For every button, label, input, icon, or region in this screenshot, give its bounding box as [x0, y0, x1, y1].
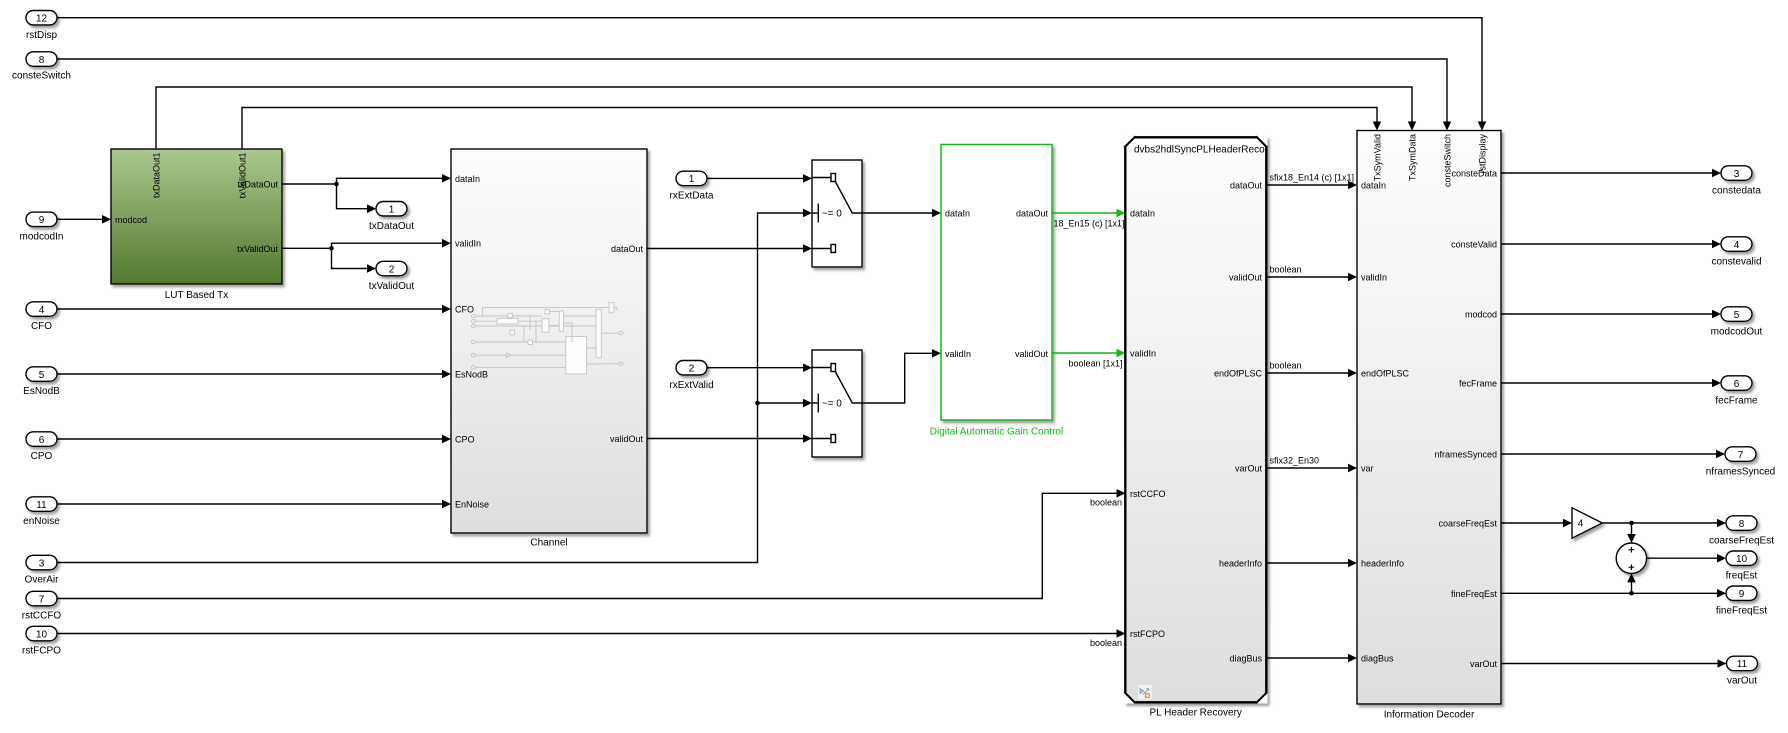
svg-text:consteValid: consteValid — [1451, 240, 1497, 250]
svg-text:11: 11 — [36, 500, 47, 511]
wire DAGC validOut to PL validIn (green) — [1052, 349, 1126, 369]
wire PL endOfPLSC to Info endOfPLSC — [1268, 361, 1358, 378]
svg-text:diagBus: diagBus — [1229, 654, 1262, 664]
svg-text:6: 6 — [39, 435, 45, 446]
svg-text:dataIn: dataIn — [455, 174, 480, 184]
wire Channel validOut to switch2 — [647, 434, 812, 443]
inport 10 rstFCPO — [22, 626, 61, 656]
outport 7 nframesSynced — [1706, 447, 1775, 478]
inport 11 enNoise — [23, 497, 60, 527]
svg-text:2: 2 — [389, 264, 395, 275]
svg-text:constevalid: constevalid — [1711, 256, 1761, 267]
svg-text:dataOut: dataOut — [1016, 209, 1049, 219]
svg-text:headerInfo: headerInfo — [1361, 559, 1404, 569]
inport 12 rstDisp — [26, 11, 58, 42]
wire txValidOut to Channel validIn — [282, 239, 451, 273]
wire OverAir to switch controls — [57, 209, 812, 563]
svg-text:sfix18_En14 (c) [1x1]: sfix18_En14 (c) [1x1] — [1270, 173, 1355, 183]
svg-text:modcod: modcod — [1465, 310, 1497, 320]
svg-text:dataOut: dataOut — [1230, 181, 1263, 191]
svg-text:boolean: boolean — [1090, 638, 1122, 648]
wire CPO — [57, 435, 451, 444]
wire Info nframesSynced to outport 7 — [1501, 450, 1725, 459]
svg-text:fineFreqEst: fineFreqEst — [1716, 606, 1767, 617]
wire rstCCFO — [57, 489, 1126, 599]
wire Info varOut to outport 11 — [1501, 659, 1727, 668]
wire EsNodB — [57, 370, 451, 379]
svg-text:freqEst: freqEst — [1726, 571, 1758, 582]
inport 8 consteSwitch — [12, 52, 71, 82]
svg-text:fineFreqEst: fineFreqEst — [1451, 589, 1498, 599]
svg-text:rstFCPO: rstFCPO — [22, 646, 61, 657]
sum block — [1616, 543, 1646, 573]
svg-text:validIn: validIn — [1361, 273, 1387, 283]
svg-text:CFO: CFO — [455, 305, 474, 315]
wire Info consteData to outport 3 — [1501, 169, 1721, 178]
svg-text:1: 1 — [389, 205, 395, 216]
wire Info coarseFreqEst to gain — [1501, 519, 1572, 528]
junction txValidOut branch — [329, 246, 334, 251]
svg-text:rstCCFO: rstCCFO — [1130, 489, 1166, 499]
subsystem LUT Based Tx — [111, 149, 282, 301]
switch Switch1 — [812, 160, 862, 267]
svg-text:1: 1 — [689, 174, 695, 185]
wire rxExtData to switch1 — [707, 174, 812, 183]
svg-text:diagBus: diagBus — [1361, 654, 1394, 664]
wire gain to outport 8 and sum — [1602, 519, 1726, 543]
svg-text:5: 5 — [39, 370, 45, 381]
inport 9 modcodIn — [20, 212, 64, 242]
junction coarseFreqEst branch — [1629, 521, 1634, 526]
outport 1 txDataOut — [369, 202, 414, 233]
svg-text:4: 4 — [1734, 240, 1740, 251]
svg-text:PL Header Recovery: PL Header Recovery — [1149, 708, 1241, 719]
svg-text:fecFrame: fecFrame — [1459, 379, 1497, 389]
svg-text:boolean: boolean — [1270, 265, 1302, 275]
gain block 4 — [1572, 508, 1602, 538]
svg-text:coarseFreqEst: coarseFreqEst — [1438, 519, 1497, 529]
svg-text:txValidOut: txValidOut — [237, 244, 278, 254]
svg-text:coarseFreqEst: coarseFreqEst — [1709, 535, 1774, 546]
wire switch2 to DAGC validIn — [862, 349, 941, 403]
inport 7 rstCCFO — [22, 591, 62, 621]
svg-text:modcodOut: modcodOut — [1711, 326, 1763, 337]
svg-text:modcodIn: modcodIn — [20, 232, 64, 243]
svg-text:sfix32_En30: sfix32_En30 — [1270, 456, 1320, 466]
wire Info consteValid to outport 4 — [1501, 240, 1721, 249]
svg-text:OverAir: OverAir — [25, 575, 60, 586]
outport 2 txValidOut — [369, 261, 415, 292]
inport 4 CFO — [26, 302, 57, 332]
svg-text:dataIn: dataIn — [1130, 209, 1155, 219]
svg-text:nframesSynced: nframesSynced — [1434, 450, 1497, 460]
svg-text:boolean: boolean — [1270, 361, 1302, 371]
wire Info fecFrame to outport 6 — [1501, 379, 1721, 388]
svg-text:rstDisp: rstDisp — [26, 30, 58, 41]
svg-text:txDataOut: txDataOut — [369, 221, 414, 232]
wire switch1 to DAGC dataIn — [862, 209, 941, 218]
svg-text:enNoise: enNoise — [23, 516, 60, 527]
wire Info modcod to outport 5 — [1501, 310, 1721, 319]
svg-text:rstDisplay: rstDisplay — [1478, 134, 1488, 174]
svg-text:dataOut: dataOut — [611, 244, 644, 254]
svg-text:2: 2 — [689, 364, 695, 375]
wire txDataOut to Channel dataIn — [282, 174, 451, 213]
outport 3 constedata — [1712, 166, 1761, 197]
wire rstFCPO — [57, 629, 1126, 648]
svg-text:varOut: varOut — [1727, 676, 1757, 687]
svg-text:EsNodB: EsNodB — [23, 386, 60, 397]
svg-text:EsNodB: EsNodB — [455, 370, 488, 380]
svg-text:dataIn: dataIn — [945, 209, 970, 219]
wire consteSwitch to consteSwitch — [57, 59, 1451, 131]
svg-text:validOut: validOut — [1229, 273, 1263, 283]
svg-text:7: 7 — [1738, 450, 1744, 461]
svg-text:validOut: validOut — [610, 434, 644, 444]
svg-text:3: 3 — [39, 558, 45, 569]
svg-text:endOfPLSC: endOfPLSC — [1214, 369, 1263, 379]
wire txValidOut1 to TxSymValid — [242, 108, 1381, 150]
svg-text:endOfPLSC: endOfPLSC — [1361, 369, 1410, 379]
svg-text:rstFCPO: rstFCPO — [1130, 629, 1165, 639]
svg-text:LUT Based Tx: LUT Based Tx — [165, 290, 229, 301]
subsystem Channel — [451, 149, 647, 549]
model block PL Header Recovery — [1124, 136, 1268, 719]
svg-text:dataIn: dataIn — [1361, 181, 1386, 191]
svg-text:10: 10 — [36, 629, 48, 640]
wire Info fineFreqEst to outport 9 and sum — [1501, 573, 1726, 597]
svg-text:validOut: validOut — [1015, 349, 1049, 359]
wire PL dataOut to Info dataIn — [1268, 173, 1358, 190]
svg-text:validIn: validIn — [1130, 349, 1156, 359]
svg-text:12: 12 — [36, 14, 48, 25]
svg-text:consteData: consteData — [1451, 169, 1497, 179]
Channel content preview sketch — [471, 303, 623, 374]
model badge icon — [1138, 685, 1153, 701]
switch Switch2 — [812, 350, 862, 457]
inport 3 OverAir — [25, 555, 60, 585]
outport 8 coarseFreqEst — [1709, 516, 1774, 547]
outport 10 freqEst — [1726, 551, 1758, 582]
wire PL headerInfo to Info headerInfo — [1268, 559, 1358, 568]
subsystem Digital Automatic Gain Control — [930, 145, 1063, 438]
svg-text:Channel: Channel — [530, 538, 567, 549]
outport 11 varOut — [1727, 656, 1758, 687]
svg-text:Information Decoder: Information Decoder — [1384, 710, 1475, 721]
svg-text:CPO: CPO — [455, 435, 475, 445]
svg-text:7: 7 — [39, 594, 45, 605]
svg-text:fecFrame: fecFrame — [1715, 395, 1758, 406]
svg-text:validIn: validIn — [455, 239, 481, 249]
svg-text:4: 4 — [39, 305, 45, 316]
svg-text:rxExtValid: rxExtValid — [669, 380, 713, 391]
svg-text:txValidOut1: txValidOut1 — [238, 153, 248, 199]
svg-text:Digital Automatic Gain Control: Digital Automatic Gain Control — [930, 427, 1063, 438]
svg-text:rxExtData: rxExtData — [670, 191, 714, 202]
svg-text:~= 0: ~= 0 — [822, 209, 842, 220]
svg-text:8: 8 — [1739, 519, 1745, 530]
subsystem Information Decoder — [1357, 131, 1501, 721]
outport 5 modcodOut — [1711, 307, 1763, 338]
inport 2 rxExtValid — [669, 361, 713, 392]
svg-text:5: 5 — [1734, 310, 1740, 321]
svg-text:CPO: CPO — [31, 451, 53, 462]
wire PL varOut to Info var — [1268, 456, 1358, 473]
svg-text:txDataOut: txDataOut — [237, 180, 278, 190]
outport 6 fecFrame — [1715, 376, 1758, 407]
svg-text:8: 8 — [39, 55, 45, 66]
outport 9 fineFreqEst — [1716, 586, 1767, 617]
svg-text:boolean: boolean — [1090, 498, 1122, 508]
svg-text:rstCCFO: rstCCFO — [22, 611, 62, 622]
wire CFO — [57, 305, 451, 314]
svg-text:11: 11 — [1737, 659, 1748, 670]
wire txDataOut1 to TxSymData — [156, 87, 1416, 149]
svg-text:var: var — [1361, 464, 1374, 474]
svg-text:txDataOut1: txDataOut1 — [152, 153, 162, 199]
wire EnNoise — [57, 500, 451, 509]
svg-text:~= 0: ~= 0 — [822, 399, 842, 410]
wire modcodIn to modcod — [57, 215, 111, 224]
svg-text:TxSymData: TxSymData — [1408, 134, 1418, 181]
inport 5 EsNodB — [23, 367, 60, 397]
svg-text:CFO: CFO — [31, 321, 52, 332]
svg-text:6: 6 — [1734, 379, 1740, 390]
inport 6 CPO — [26, 432, 57, 462]
svg-text:4: 4 — [1578, 519, 1584, 530]
svg-text:validIn: validIn — [945, 349, 971, 359]
svg-text:constedata: constedata — [1712, 185, 1761, 196]
svg-text:modcod: modcod — [115, 215, 147, 225]
svg-text:EnNoise: EnNoise — [455, 500, 489, 510]
wire DAGC dataOut to PL dataIn (green) — [1052, 209, 1126, 229]
wire Channel dataOut to switch1 — [647, 244, 812, 253]
wire rxExtValid to switch2 — [707, 363, 812, 372]
wire PL validOut to Info validIn — [1268, 265, 1358, 282]
svg-text:txValidOut: txValidOut — [369, 281, 415, 292]
svg-text:varOut: varOut — [1470, 659, 1498, 669]
svg-text:TxSymValid: TxSymValid — [1373, 134, 1383, 181]
svg-text:consteSwitch: consteSwitch — [1443, 134, 1453, 187]
svg-text:nframesSynced: nframesSynced — [1706, 466, 1775, 477]
inport 1 rxExtData — [670, 171, 714, 201]
svg-text:headerInfo: headerInfo — [1219, 559, 1262, 569]
junction txDataOut branch — [334, 182, 339, 187]
svg-text:varOut: varOut — [1235, 464, 1263, 474]
svg-text:3: 3 — [1734, 169, 1740, 180]
junction fineFreqEst branch — [1629, 591, 1634, 596]
svg-text:9: 9 — [1739, 589, 1745, 600]
svg-text:18_En15 (c) [1x1]: 18_En15 (c) [1x1] — [1054, 219, 1125, 229]
wire PL diagBus to Info diagBus — [1268, 654, 1358, 663]
svg-text:9: 9 — [39, 215, 45, 226]
svg-text:10: 10 — [1736, 554, 1748, 565]
wire rstDisp to rstDisplay — [57, 18, 1486, 131]
svg-text:dvbs2hdlSyncPLHeaderReco: dvbs2hdlSyncPLHeaderReco — [1134, 144, 1265, 155]
wire sum to outport 10 — [1647, 554, 1726, 563]
svg-text:boolean [1x1]: boolean [1x1] — [1068, 359, 1122, 369]
outport 4 constevalid — [1711, 237, 1761, 267]
junction OverAir branch — [755, 401, 760, 406]
svg-text:consteSwitch: consteSwitch — [12, 71, 71, 82]
